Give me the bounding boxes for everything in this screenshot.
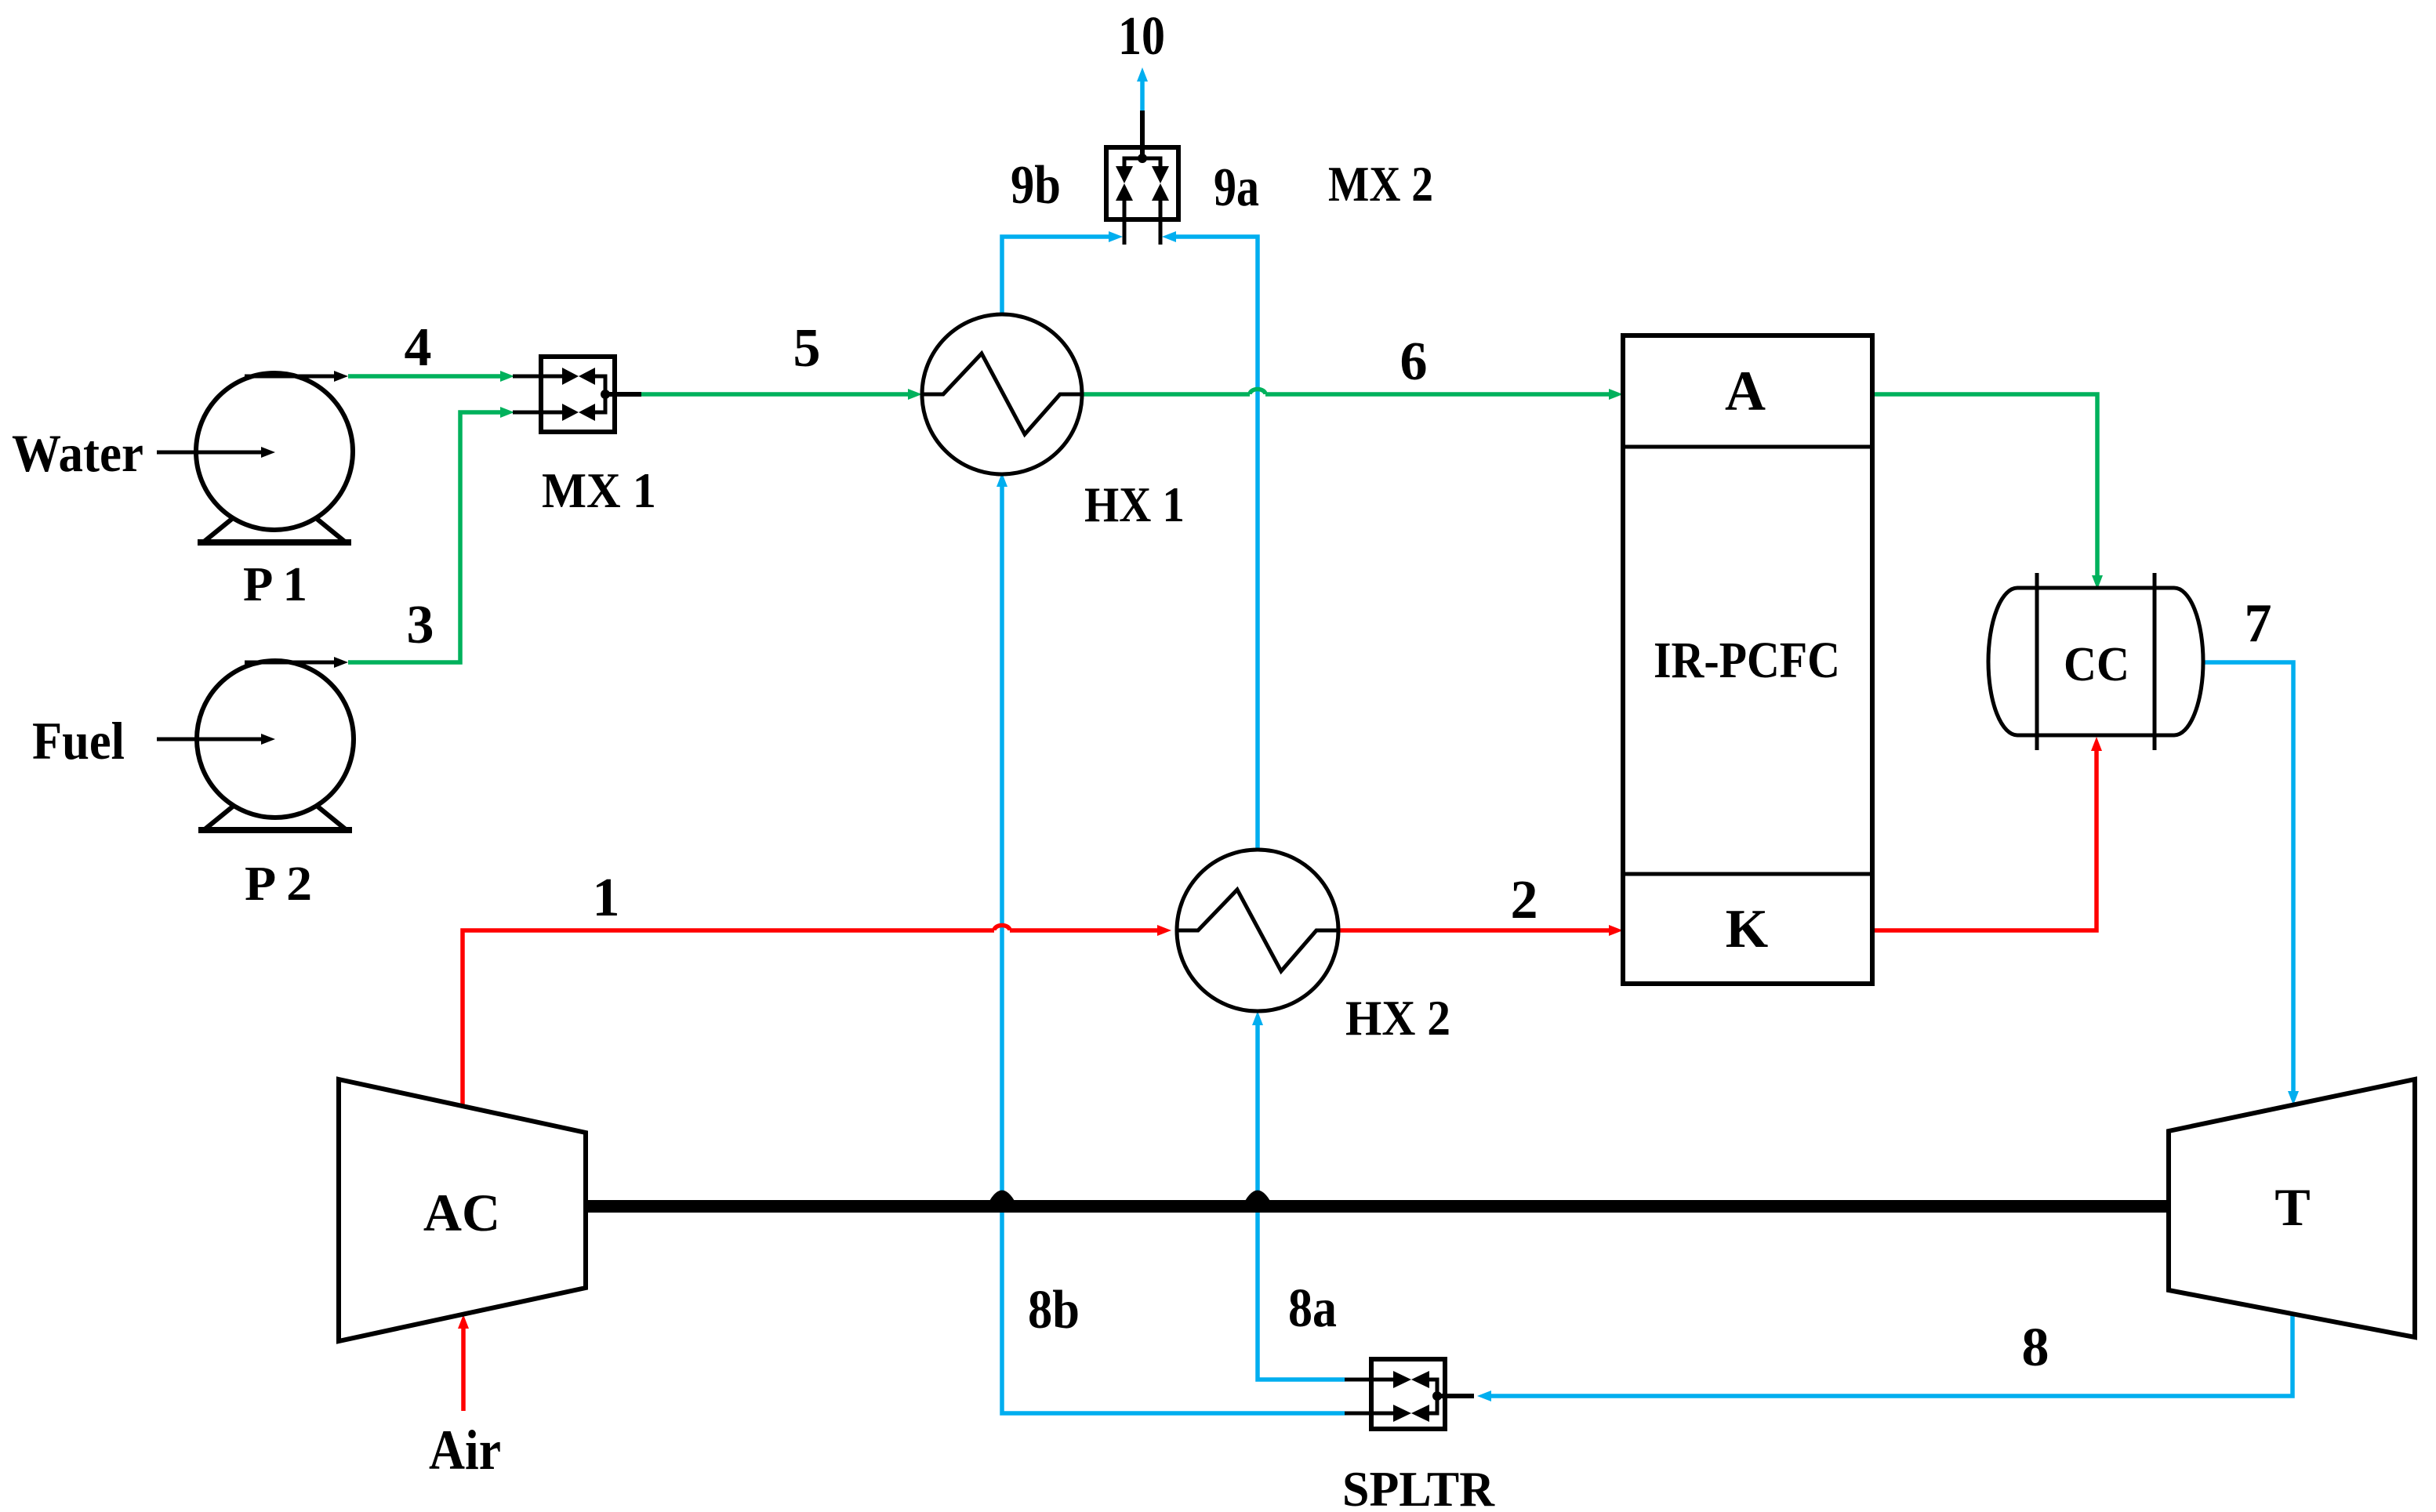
Fuel inlet arrow bbox=[157, 738, 263, 741]
P2 outlet line bbox=[245, 661, 336, 665]
wire Air into AC bbox=[461, 1327, 466, 1411]
svg-text:MX 2: MX 2 bbox=[1328, 156, 1433, 212]
wire 9b arrow into MX2 bbox=[1109, 231, 1123, 242]
svg-text:9a: 9a bbox=[1214, 158, 1259, 218]
svg-text:5: 5 bbox=[793, 318, 821, 379]
wire 4 water to MX1 bbox=[348, 374, 502, 379]
wire 8a from SPLTR top output to HX2 bottom bbox=[1258, 1022, 1345, 1380]
svg-text:2: 2 bbox=[1511, 870, 1538, 930]
svg-text:10: 10 bbox=[1118, 6, 1165, 67]
P1 outlet line bbox=[245, 375, 336, 379]
svg-text:Water: Water bbox=[12, 423, 143, 483]
svg-text:MX 1: MX 1 bbox=[542, 462, 656, 518]
svg-text:6: 6 bbox=[1400, 332, 1428, 392]
wire 9a vertical from HX2 top to MX2 right bbox=[1176, 237, 1258, 850]
svg-text:A: A bbox=[1725, 360, 1766, 422]
svg-text:4: 4 bbox=[405, 317, 432, 378]
wire 8b arrow into HX1 bbox=[997, 473, 1007, 487]
svg-text:SPLTR: SPLTR bbox=[1342, 1461, 1495, 1512]
svg-text:Fuel: Fuel bbox=[32, 711, 125, 771]
mixer MX2 bbox=[1106, 147, 1178, 219]
wire 2 HX2 to fuel cell cathode bbox=[1338, 928, 1610, 933]
wire 9b vertical from HX1 top to MX2 left bbox=[1002, 237, 1110, 314]
shaft hop over wire 8b bbox=[989, 1191, 1015, 1202]
svg-text:3: 3 bbox=[407, 595, 434, 655]
heat exchanger HX2 bbox=[1177, 850, 1338, 1011]
svg-text:T: T bbox=[2274, 1177, 2310, 1237]
svg-text:IR-PCFC: IR-PCFC bbox=[1654, 632, 1840, 689]
wire 1 AC to HX2 bbox=[463, 930, 994, 1106]
compressor AC bbox=[339, 1079, 586, 1341]
Water inlet arrow bbox=[157, 451, 263, 455]
wire 8 from turbine to SPLTR bbox=[1488, 1314, 2293, 1396]
svg-text:P 2: P 2 bbox=[245, 858, 312, 911]
wire 8a arrow into HX2 bbox=[1252, 1011, 1263, 1025]
svg-text:HX 1: HX 1 bbox=[1084, 477, 1185, 532]
fuel cell IR-PCFC bbox=[1623, 335, 1872, 984]
turbine T bbox=[2169, 1079, 2415, 1337]
svg-text:8: 8 bbox=[2022, 1318, 2049, 1378]
wire 5 MX1 to HX1 bbox=[641, 392, 909, 397]
wire 9a arrow into MX2 bbox=[1162, 231, 1176, 242]
shaft between AC and T bbox=[586, 1200, 2169, 1213]
svg-text:1: 1 bbox=[593, 868, 620, 928]
svg-text:AC: AC bbox=[423, 1183, 500, 1242]
wire 6 HX1 to fuel cell anode bbox=[1082, 392, 1250, 397]
svg-text:P 1: P 1 bbox=[243, 558, 307, 611]
svg-text:8b: 8b bbox=[1028, 1280, 1080, 1340]
wire 7 arrow into turbine bbox=[2288, 1091, 2299, 1105]
svg-text:K: K bbox=[1726, 899, 1768, 959]
svg-text:Air: Air bbox=[429, 1419, 501, 1481]
wire cathode out to CC bbox=[1872, 749, 2097, 930]
svg-text:9b: 9b bbox=[1011, 155, 1061, 216]
combustion chamber CC bbox=[1988, 588, 2203, 735]
mixer MX1 bbox=[541, 357, 615, 432]
shaft hop over wire 8a bbox=[1245, 1191, 1270, 1202]
svg-text:CC: CC bbox=[2064, 638, 2129, 691]
wire anode out to CC bbox=[1872, 394, 2097, 577]
wire 7 from CC to turbine bbox=[2202, 662, 2293, 1093]
wire 8 arrow into SPLTR bbox=[1477, 1391, 1491, 1401]
svg-text:HX 2: HX 2 bbox=[1345, 990, 1450, 1046]
svg-text:8a: 8a bbox=[1288, 1278, 1337, 1339]
splitter SPLTR bbox=[1371, 1359, 1445, 1429]
pump P2 bbox=[197, 661, 354, 818]
wire 8b from SPLTR bottom output to HX1 bottom bbox=[1002, 484, 1345, 1413]
heat exchanger HX1 bbox=[922, 314, 1082, 474]
wire 3 fuel to MX1 bbox=[348, 412, 502, 662]
pump P1 bbox=[196, 373, 353, 530]
svg-text:7: 7 bbox=[2245, 593, 2272, 654]
wire 10 out of MX2 bbox=[1140, 82, 1145, 111]
